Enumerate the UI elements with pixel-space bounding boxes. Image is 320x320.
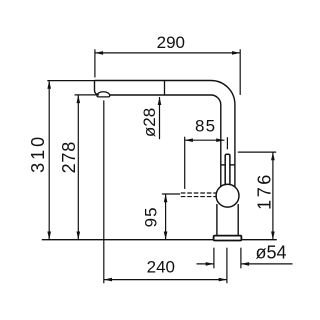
svg-text:95: 95 (142, 206, 161, 227)
svg-text:176: 176 (255, 172, 275, 210)
svg-text:85: 85 (195, 117, 216, 136)
svg-text:ø28: ø28 (140, 108, 159, 137)
svg-text:310: 310 (28, 134, 48, 173)
svg-text:ø54: ø54 (255, 243, 286, 263)
svg-text:290: 290 (157, 33, 185, 52)
svg-text:240: 240 (147, 258, 175, 277)
svg-text:278: 278 (59, 141, 79, 173)
